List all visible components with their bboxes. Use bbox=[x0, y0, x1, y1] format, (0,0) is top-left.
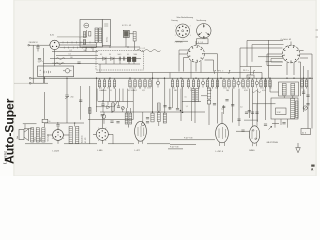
svg-text:0,1: 0,1 bbox=[70, 50, 72, 52]
wire det column bbox=[96, 78, 98, 112]
svg-text:L·41C·0: L·41C·0 bbox=[216, 151, 224, 153]
wire L6 drop bbox=[127, 124, 129, 128]
capacitor C1b with squiggle bbox=[38, 58, 41, 60]
tube V5 radial stubs bbox=[108, 133, 110, 135]
wire L6 top stubs bbox=[126, 108, 128, 113]
wire S4 bottom drops bbox=[286, 63, 288, 76]
wire column f2 bbox=[44, 123, 46, 127]
wire S3 pin drop right bbox=[200, 61, 202, 72]
wire V7 bottom leads bbox=[219, 142, 221, 146]
resistor R32 bbox=[157, 113, 160, 122]
wire S4 nested box 1 bbox=[267, 54, 282, 66]
block filter F1 bbox=[127, 57, 131, 62]
wire L9 bottom bbox=[64, 143, 97, 145]
capacitor C8b bbox=[231, 104, 234, 106]
wire resistor drop bbox=[134, 41, 136, 51]
wire C9 leads bbox=[102, 100, 104, 104]
trimmer T3 bbox=[237, 81, 240, 84]
IF coil L9a bbox=[69, 127, 72, 144]
wire right column d bbox=[311, 54, 313, 129]
node grid rail a bbox=[57, 122, 58, 123]
node box bottom a bbox=[96, 46, 97, 47]
wire TR left link bbox=[270, 91, 279, 93]
capacitor C18 bbox=[110, 120, 113, 122]
dark junction marks bbox=[180, 110, 182, 112]
coil L1 winding b bbox=[99, 28, 102, 43]
wire under choke parts bbox=[272, 123, 279, 125]
wire V4 right lead bbox=[63, 134, 69, 136]
wire af rail bbox=[170, 144, 196, 146]
svg-text:100: 100 bbox=[70, 57, 73, 59]
wire V5 left lead bbox=[93, 133, 96, 135]
choke coil tall a bbox=[291, 98, 295, 118]
wire V8 col link bbox=[265, 78, 267, 120]
fuse circle in power box bbox=[65, 69, 69, 73]
capacitor C25 bbox=[241, 129, 244, 131]
svg-text:ƒ: ƒ bbox=[214, 69, 217, 74]
svg-text:42 · 375: 42 · 375 bbox=[85, 137, 87, 143]
diode D1 bbox=[103, 57, 106, 61]
wire column h bbox=[89, 86, 91, 144]
svg-text:50: 50 bbox=[107, 88, 109, 90]
wire det rail y106.8 bbox=[96, 106, 115, 108]
wire V8 feed rail bbox=[253, 103, 276, 105]
capacitor C10 bbox=[117, 105, 120, 107]
capacitor C1 antenna coupling bbox=[36, 46, 39, 48]
resistor group G7b (R26 R27 R28b) bbox=[260, 78, 262, 80]
wire S3 nested box 3 bbox=[205, 60, 214, 72]
svg-text:GB 67 PRHG: GB 67 PRHG bbox=[267, 142, 279, 144]
socket S2 pin circles bbox=[203, 25, 205, 27]
svg-text:0,1: 0,1 bbox=[264, 90, 266, 92]
svg-text:Schwingsp.: Schwingsp. bbox=[48, 133, 50, 141]
wire box drop b bbox=[92, 47, 94, 52]
wire box bottom drop 2 bbox=[125, 37, 127, 47]
wire L5 drop bbox=[194, 102, 196, 123]
resistor group G8 (R29b R30b) bbox=[301, 78, 303, 80]
capacitor C15 bbox=[306, 103, 309, 105]
tube V4 pins bbox=[57, 132, 58, 133]
svg-text:0,5: 0,5 bbox=[215, 88, 217, 90]
output coil L8b bbox=[36, 128, 39, 142]
trimmer T2 bbox=[201, 81, 204, 84]
svg-text:F·427 7·08: F·427 7·08 bbox=[184, 138, 192, 140]
svg-text:Feldsp.: Feldsp. bbox=[35, 136, 37, 141]
capacitor C9 bbox=[101, 103, 104, 105]
trimmer C2 slot bbox=[85, 25, 88, 27]
capacitor C7 bbox=[225, 99, 228, 101]
wire L9 top lead bbox=[74, 123, 76, 127]
wire V5 right drop bbox=[112, 134, 114, 144]
wire V8 top leads bbox=[252, 89, 254, 120]
wire R31 top bbox=[152, 78, 154, 113]
choke coil tall b bbox=[295, 101, 298, 118]
wire right column a bbox=[300, 62, 302, 96]
wire right column b bbox=[303, 66, 305, 112]
wire L5-R28 link bbox=[201, 95, 207, 97]
wire V6 bottom leads bbox=[138, 141, 140, 144]
speaker LS cone bbox=[24, 129, 29, 141]
wire column e bbox=[248, 89, 250, 118]
padder parts 2 bbox=[83, 40, 85, 45]
svg-text:E̶Z̶40: E̶Z̶40 bbox=[250, 150, 256, 152]
wire R32 drop bbox=[158, 122, 160, 127]
output coil L8a bbox=[31, 128, 34, 142]
junction arrow right of V8 bbox=[269, 126, 272, 129]
wire S4 frame 2 top bbox=[252, 44, 284, 46]
trimmer T4 bbox=[255, 81, 258, 84]
svg-text:25: 25 bbox=[303, 90, 305, 92]
svg-text:2x0,1: 2x0,1 bbox=[118, 54, 122, 56]
svg-text:1,0: 1,0 bbox=[240, 107, 242, 109]
wire S3 nested box 1 bbox=[184, 58, 189, 72]
svg-text:Auto-Super: Auto-Super bbox=[2, 98, 16, 164]
resistor R31 bbox=[151, 113, 154, 122]
squiggle under G7b bbox=[252, 91, 261, 93]
svg-text:0,1: 0,1 bbox=[227, 90, 229, 92]
wire right column c bbox=[307, 70, 309, 129]
wire f1 column link bbox=[217, 73, 219, 85]
resistor group G6 (R20 R21 R22) bbox=[223, 78, 225, 80]
capacitor C21 bbox=[79, 99, 82, 101]
wire squiggle drop to coil box bbox=[86, 30, 88, 37]
tube V4 radial stubs bbox=[63, 137, 64, 140]
pot wiper arrow bbox=[115, 101, 118, 106]
capacitor C19 bbox=[116, 121, 119, 123]
svg-text:5000: 5000 bbox=[101, 90, 105, 92]
svg-text:L 2023: L 2023 bbox=[53, 151, 60, 153]
wire heater cable line 3 bbox=[59, 47, 96, 49]
tube V4 circle bbox=[53, 130, 64, 141]
capacitor row above V8 a bbox=[245, 111, 248, 113]
lamp filament bbox=[304, 107, 307, 109]
tube S4 pin dots bbox=[297, 55, 298, 56]
capacitor C12 bbox=[146, 121, 149, 123]
TR1 primary coil b bbox=[291, 84, 295, 96]
wire S3 right step bbox=[204, 54, 217, 72]
svg-text:50: 50 bbox=[109, 54, 111, 56]
padder parts 3 bbox=[89, 32, 91, 37]
wire main bus rail bbox=[31, 77, 313, 79]
trimmer C2 in coil box bbox=[84, 23, 89, 28]
capacitor C17 row4 bbox=[77, 61, 80, 63]
svg-text:Feld: Feld bbox=[17, 136, 19, 139]
wire speaker feed rail bbox=[23, 123, 37, 125]
tube V8 oval envelope (rectifier EZ40) bbox=[249, 126, 259, 143]
wire row y58.6 left bbox=[50, 58, 98, 60]
tube S3 socket circle bbox=[188, 45, 205, 62]
wire S4 nested box 2 bbox=[271, 59, 284, 63]
IF can Fi1 body bbox=[123, 30, 129, 37]
svg-text:50: 50 bbox=[175, 90, 177, 92]
fuse link bbox=[63, 70, 65, 72]
capacitor C3 bbox=[118, 57, 120, 61]
terminal circle battery rail left bbox=[29, 82, 31, 84]
svg-text:50: 50 bbox=[246, 90, 248, 92]
tuning capacitor frame bbox=[102, 20, 110, 46]
power box outline bbox=[38, 66, 74, 77]
wire heater cable line 1 bbox=[59, 41, 96, 43]
coil L6 winding a bbox=[125, 113, 128, 124]
paper page background bbox=[0, 0, 320, 176]
svg-text:0,1: 0,1 bbox=[100, 88, 102, 90]
svg-text:1,0: 1,0 bbox=[221, 108, 223, 110]
wire mid rail drop bbox=[261, 73, 263, 79]
wire row y51.5 bbox=[52, 51, 98, 53]
svg-text:Valvo Rimlockfassung: Valvo Rimlockfassung bbox=[177, 17, 194, 19]
svg-text:L·427: L·427 bbox=[135, 150, 141, 152]
wire S3 bottom drop bbox=[195, 62, 197, 71]
svg-text:0,1: 0,1 bbox=[69, 54, 71, 56]
wire S3 top lead bbox=[195, 41, 197, 45]
squiggle row4 bbox=[55, 63, 64, 65]
socket S2 spigot lines bbox=[203, 24, 205, 28]
trimmer T1 bbox=[156, 81, 159, 84]
tube V1 UCH42 envelope bbox=[50, 40, 59, 49]
svg-text:0,1: 0,1 bbox=[127, 54, 129, 56]
coil L6 winding b bbox=[129, 113, 132, 124]
battery cell strokes bbox=[43, 71, 45, 74]
svg-text:Novalfassung: Novalfassung bbox=[197, 20, 207, 22]
wire S3 nested box 2 bbox=[179, 54, 188, 72]
wire above V8 link bbox=[244, 119, 258, 121]
wire speaker feed drop bbox=[24, 124, 26, 130]
svg-text:LW KW U: LW KW U bbox=[29, 42, 38, 44]
svg-text:0,1: 0,1 bbox=[173, 88, 175, 90]
coil L5 winding b bbox=[196, 89, 199, 102]
wire rail drop b bbox=[152, 73, 154, 79]
wire box drop a bbox=[85, 47, 87, 52]
coil L1 winding a bbox=[95, 28, 98, 43]
wire antenna to V1 bbox=[29, 44, 50, 46]
node grid rail b bbox=[74, 122, 75, 123]
wire TR drops bbox=[283, 96, 285, 98]
resistor R28 bbox=[207, 88, 210, 99]
svg-text:50: 50 bbox=[49, 121, 51, 123]
wire grid rail y123 bbox=[45, 122, 84, 124]
wire grid cap lead bbox=[142, 121, 144, 123]
wire rail under label a bbox=[170, 139, 215, 141]
capacitor C16 under choke bbox=[282, 122, 285, 124]
svg-text:0,1: 0,1 bbox=[244, 88, 246, 90]
svg-text:5 W: 5 W bbox=[277, 112, 281, 114]
wire S3 pin drop left bbox=[190, 61, 192, 78]
svg-text:Drehko: Drehko bbox=[107, 37, 109, 42]
terminal box A bbox=[301, 129, 311, 135]
wire S4 right leads bbox=[300, 50, 304, 52]
dial lamp La1 bbox=[303, 106, 307, 110]
capacitor C24 bbox=[176, 108, 179, 110]
resistor group G5 (R17 R18 R19) bbox=[207, 78, 209, 80]
ground arrow symbol bbox=[296, 143, 301, 153]
svg-text:4 · 5 3: 4 · 5 3 bbox=[198, 42, 203, 44]
tube V7 electrodes bbox=[218, 129, 220, 139]
detector filter dashed box bbox=[96, 51, 144, 71]
wire V5 right lead bbox=[108, 133, 113, 135]
wire column c bbox=[232, 89, 234, 123]
node antenna junction bbox=[37, 45, 38, 46]
IF coil L9b bbox=[76, 127, 79, 144]
terminal circle bus left bbox=[29, 77, 31, 79]
socket diagram S2 circle bbox=[197, 24, 211, 38]
wire af columns extension bbox=[172, 89, 174, 108]
svg-text:250: 250 bbox=[71, 97, 74, 99]
wire rail under label b bbox=[168, 148, 183, 150]
svg-text:5000: 5000 bbox=[134, 54, 138, 56]
capacitor C26 bbox=[237, 118, 240, 120]
tube V8 anode pip bottom bbox=[255, 138, 257, 140]
wire V1 cathode drop bbox=[54, 50, 56, 66]
svg-text:0,25: 0,25 bbox=[142, 90, 145, 92]
svg-text:4 2 · 0 2: 4 2 · 0 2 bbox=[139, 48, 145, 50]
wire column d bbox=[238, 89, 240, 110]
wire column e2 bbox=[256, 89, 258, 122]
block filter F2 bbox=[132, 57, 136, 62]
capacitor row above V8 c bbox=[255, 111, 258, 113]
padder parts in coil box bbox=[83, 32, 85, 38]
wire column g bbox=[66, 78, 68, 94]
wire P2 leads bbox=[103, 112, 105, 115]
resistor group G1 (R2 R3 R4 R5) bbox=[99, 78, 101, 80]
tube S4 pin stubs bbox=[298, 54, 300, 56]
wire R28 drop bbox=[208, 99, 210, 100]
wire V7 top lead bbox=[221, 112, 223, 124]
wire column f bbox=[44, 92, 46, 119]
wire cluster drop c bbox=[118, 102, 120, 107]
wire det col e bbox=[126, 89, 128, 108]
tube S4 socket circle bbox=[282, 45, 300, 63]
wire coil box bottom bus bbox=[83, 46, 140, 48]
coupling squiggle to tuner bbox=[137, 50, 161, 52]
svg-text:ƒ: ƒ bbox=[253, 69, 256, 74]
wire cluster drop a bbox=[107, 102, 109, 106]
diode D2 bbox=[111, 57, 114, 61]
coil L5 winding a bbox=[192, 89, 195, 102]
resistor R34 bbox=[89, 108, 91, 114]
svg-text:50: 50 bbox=[147, 88, 149, 90]
capacitor C27 bbox=[302, 91, 305, 93]
edge tick right 1 bbox=[316, 29, 319, 31]
wire pre-S4 link bbox=[240, 66, 262, 68]
coil L7 choke bbox=[163, 113, 166, 123]
tube V6 oval envelope bbox=[135, 121, 147, 141]
transformer TR1 primary box bbox=[279, 82, 299, 96]
wire S3 top link left bbox=[175, 40, 188, 42]
svg-text:ZF·1 ∿: ZF·1 ∿ bbox=[218, 69, 224, 72]
shielded lead squiggle above V1 bbox=[57, 36, 87, 39]
wire column b2 bbox=[223, 105, 225, 114]
pot P2 circle bbox=[102, 115, 106, 119]
binder tick left 1 bbox=[14, 82, 31, 84]
tube S3 pin dots bbox=[202, 53, 203, 54]
choke label box bbox=[276, 108, 287, 115]
tube V5 pins bbox=[105, 135, 106, 136]
wire junction box feed bbox=[250, 67, 252, 76]
wire S4 frame 2 left bbox=[251, 45, 253, 62]
capacitor C8d bbox=[222, 105, 225, 107]
wire det lower row bbox=[98, 63, 140, 65]
wire S4 frame left bbox=[246, 41, 248, 67]
tube S3 pin stubs bbox=[203, 53, 205, 55]
wire audio rail bbox=[100, 111, 205, 113]
wire rail drop c bbox=[169, 73, 171, 79]
capacitor C8c bbox=[248, 110, 251, 112]
wire V5 bottom bbox=[101, 140, 103, 144]
wire S4 link y56.8 bbox=[258, 56, 282, 58]
wire L7 top bbox=[164, 78, 166, 113]
svg-text:0,1: 0,1 bbox=[110, 90, 112, 92]
choke frame outer bbox=[271, 98, 298, 119]
wire S4 step left bbox=[240, 48, 283, 78]
cable tick marks bbox=[62, 41, 64, 43]
resistor group G3 (R11 R12 R13) bbox=[172, 78, 174, 80]
wire heater cable line 2 bbox=[59, 44, 96, 46]
wire V6 zone bottom bbox=[108, 143, 134, 145]
wire col 239 extension bbox=[238, 110, 240, 126]
resistor R33 bbox=[158, 103, 161, 111]
capacitor C14 at V5 top bbox=[101, 114, 104, 116]
wire cluster links bbox=[98, 101, 133, 103]
wire det row bbox=[98, 58, 141, 60]
diode D3 triangle bbox=[107, 106, 110, 109]
squiggle row3 bbox=[56, 58, 65, 60]
wire V8 bottom leads bbox=[252, 143, 254, 146]
wire cluster drop b bbox=[112, 102, 114, 104]
capacitor row above V8 b bbox=[251, 111, 254, 113]
pot arrow bbox=[122, 107, 124, 109]
capacitor C22 bbox=[163, 105, 166, 107]
wire column h2 bbox=[80, 86, 82, 120]
wire long vertical x268 bbox=[268, 40, 270, 78]
wire column a bbox=[180, 89, 182, 121]
capacitor C4 bbox=[122, 57, 124, 61]
wire column x43 bbox=[42, 48, 44, 83]
wire S4 link y61.8 bbox=[266, 61, 283, 63]
socket S1 center pip bbox=[182, 30, 184, 32]
wire grid cap feed bbox=[142, 112, 144, 121]
tube V8 electrodes bbox=[251, 130, 253, 139]
resistor group G7 (R23 R24 R25) bbox=[242, 78, 244, 80]
resistor group G4 (R14 R15 R16) bbox=[188, 78, 190, 80]
svg-text:F·427 7·08: F·427 7·08 bbox=[170, 147, 178, 149]
svg-text:0,1: 0,1 bbox=[113, 88, 115, 90]
wire can to resistor bbox=[129, 33, 133, 35]
resistor R30 bbox=[112, 103, 115, 111]
oscillator box B2 bbox=[197, 39, 209, 44]
connector box K bbox=[42, 119, 48, 122]
svg-text:50: 50 bbox=[270, 88, 272, 90]
svg-text:0,1: 0,1 bbox=[225, 88, 227, 90]
svg-text:4.2 2.5 · 02: 4.2 2.5 · 02 bbox=[122, 25, 131, 27]
junction box on bus bbox=[247, 75, 254, 78]
wire V6-V7 bottom bbox=[147, 143, 170, 145]
wire det verticals from bus groups bbox=[96, 89, 98, 102]
wire det drops bbox=[99, 64, 101, 73]
capacitor C23 bbox=[168, 107, 171, 109]
wire left of V8 bbox=[236, 130, 249, 132]
TR1 primary coil a bbox=[282, 84, 286, 96]
svg-text:L·080: L·080 bbox=[97, 150, 103, 152]
wire L5 drop b bbox=[191, 102, 193, 121]
wire power box drop bbox=[44, 77, 46, 84]
socket S1 pin circles bbox=[182, 25, 184, 27]
wire V4 left lead bbox=[47, 134, 53, 136]
svg-text:0,1: 0,1 bbox=[262, 88, 264, 90]
component box under R28 bbox=[207, 100, 210, 104]
coil box L1 outline bbox=[80, 20, 102, 48]
wire C1 lead bbox=[37, 48, 39, 52]
wire choke drops bbox=[274, 119, 276, 128]
